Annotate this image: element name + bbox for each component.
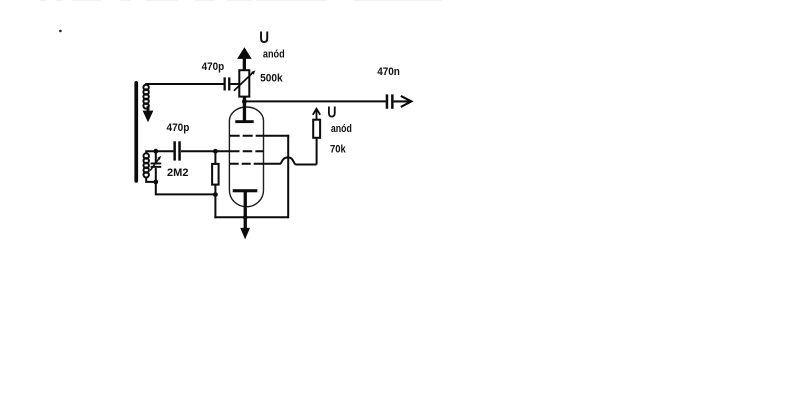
inductor L1 antenna coil	[143, 85, 148, 109]
output arrow	[394, 96, 412, 107]
grid g1 wire (left)	[181, 150, 230, 152]
junction dot coil bottom	[153, 180, 158, 185]
triode V1 envelope	[229, 107, 263, 207]
resistor 70k	[313, 120, 320, 138]
capacitor C1 470p	[224, 77, 231, 90]
stray dot	[59, 30, 62, 33]
anode plate of V1	[235, 96, 253, 123]
grid g1 dashed	[230, 150, 263, 152]
junction dot anode node	[242, 99, 247, 104]
junction dot cathode bottom	[243, 215, 248, 220]
wire coil bottom to lower node	[156, 182, 216, 194]
svg-text:anód: anód	[263, 48, 285, 60]
arrow down below L1	[143, 106, 154, 122]
svg-text:470p: 470p	[167, 122, 190, 134]
grid g3 dashed	[230, 163, 257, 165]
potentiometer 500k	[234, 70, 256, 96]
ground arrow below cathode	[240, 228, 250, 240]
resistor 2M2	[212, 164, 219, 185]
wire coil top to C2	[156, 150, 174, 152]
wire anode node to C3	[244, 100, 386, 102]
wire g3 with jump over vertical	[257, 157, 317, 164]
svg-text:U: U	[259, 28, 269, 47]
trimmer capacitor across L2	[150, 151, 161, 182]
inductor L2 tuning coil	[144, 151, 156, 182]
wire 2M2 to lower node	[214, 185, 216, 195]
junction dot grid node	[213, 149, 218, 154]
cathode of V1	[233, 189, 258, 228]
svg-text:2M2: 2M2	[167, 167, 189, 179]
supply arrow U anod right	[313, 109, 320, 120]
svg-text:470n: 470n	[377, 66, 400, 78]
svg-text:70k: 70k	[330, 143, 347, 155]
svg-text:500k: 500k	[260, 73, 283, 85]
wire lower node to bottom return	[214, 195, 216, 219]
supply arrow U anod left	[237, 47, 252, 70]
junction dot coil top	[153, 149, 158, 154]
wire bottom return	[214, 216, 288, 218]
wire below 70k	[316, 138, 318, 165]
wire right vertical (g2 to bottom)	[287, 135, 289, 219]
ferrite core bar	[134, 81, 138, 183]
wire g2 to right vertical	[263, 135, 289, 137]
grid g2 dashed	[230, 135, 264, 137]
svg-text:anód: anód	[331, 123, 352, 135]
capacitor C2 470p (grid)	[173, 141, 180, 160]
wire grid node to 2M2	[214, 151, 216, 164]
svg-text:470p: 470p	[202, 61, 225, 73]
wire L1 to C1	[145, 83, 223, 85]
svg-text:U: U	[327, 105, 336, 122]
capacitor C3 470n	[386, 94, 394, 108]
junction dot 2M2 bottom	[213, 192, 218, 197]
wire C1 to potentiometer	[230, 83, 239, 85]
